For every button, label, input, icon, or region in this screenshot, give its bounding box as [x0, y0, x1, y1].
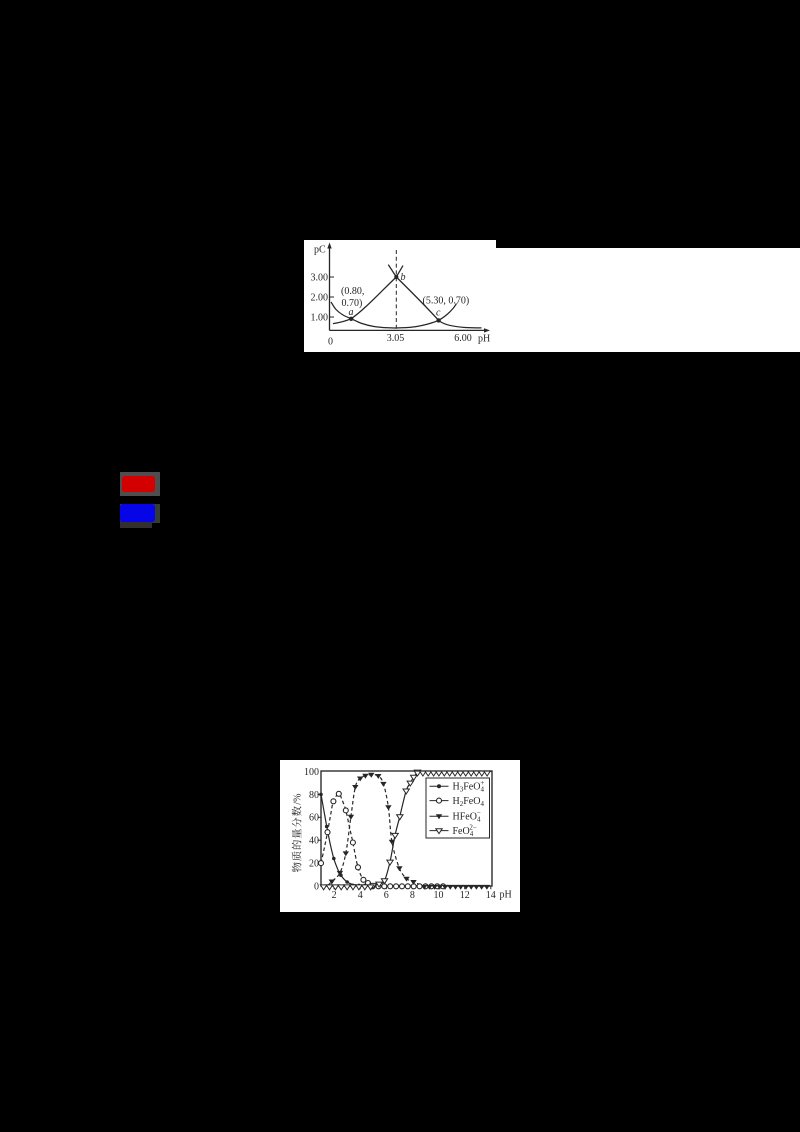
point b	[394, 275, 398, 279]
markers FeO4 2- open triangles	[370, 883, 376, 888]
curve falling b to c	[388, 265, 481, 328]
svg-text:0: 0	[328, 337, 333, 348]
legend row ocirc	[430, 800, 449, 802]
blue analysis stamp	[120, 504, 160, 523]
svg-text:8: 8	[410, 890, 415, 901]
svg-text:pH: pH	[478, 334, 490, 345]
figure 1 white band	[304, 240, 496, 352]
svg-text:(5.30, 0.70): (5.30, 0.70)	[423, 296, 470, 307]
svg-text:/%: /%	[293, 794, 304, 805]
svg-text:b: b	[401, 272, 406, 283]
x axis pH	[330, 329, 488, 331]
plot frame	[321, 771, 492, 886]
svg-text:(0.80,: (0.80,	[341, 286, 364, 297]
markers HFeO4- filled triangles	[329, 880, 335, 885]
svg-text:H2FeO4: H2FeO4	[453, 796, 485, 808]
y ticks	[330, 276, 335, 278]
svg-text:14: 14	[486, 890, 496, 901]
markers H3FeO4+	[319, 793, 323, 797]
svg-text:6: 6	[384, 890, 389, 901]
curve HFeO4- dashed	[328, 775, 425, 886]
dashed guide at pH 3.05	[395, 250, 397, 330]
svg-text:4: 4	[358, 890, 363, 901]
svg-text:60: 60	[309, 813, 319, 824]
y axis pC	[329, 245, 331, 330]
y axis title (rotated CJK)	[292, 794, 304, 873]
svg-text:6.00: 6.00	[454, 333, 472, 344]
figure 1: pC vs pH diagram	[304, 240, 504, 352]
legend row dot	[430, 785, 449, 787]
legend row otri	[430, 830, 449, 832]
svg-text:20: 20	[309, 859, 319, 870]
point c	[436, 318, 440, 322]
markers H2FeO4 open circles	[319, 861, 324, 866]
curve U (H2A)	[331, 302, 457, 328]
svg-text:2.00: 2.00	[311, 293, 329, 304]
svg-text:3.00: 3.00	[311, 273, 329, 284]
svg-text:100: 100	[304, 767, 319, 778]
curve H3FeO4+ solid	[321, 794, 368, 885]
figure 2: distribution diagram	[280, 760, 520, 912]
legend box	[426, 778, 490, 838]
svg-text:H3FeO4+: H3FeO4+	[453, 779, 485, 793]
svg-text:0: 0	[314, 881, 319, 892]
red answer stamp	[120, 472, 160, 496]
svg-text:3.05: 3.05	[387, 333, 405, 344]
y ticks	[318, 862, 322, 864]
svg-text:1.00: 1.00	[311, 313, 329, 324]
x ticks	[333, 886, 335, 889]
svg-text:HFeO4−: HFeO4−	[453, 809, 481, 823]
svg-text:80: 80	[309, 790, 319, 801]
curve rising a to b	[333, 266, 403, 324]
svg-text:pH: pH	[500, 890, 512, 901]
svg-text:10: 10	[434, 890, 444, 901]
svg-text:12: 12	[460, 890, 470, 901]
svg-text:pC: pC	[314, 245, 326, 256]
legend row ftri	[430, 815, 449, 817]
point a	[349, 317, 353, 321]
svg-text:a: a	[349, 307, 354, 318]
svg-text:2: 2	[332, 890, 337, 901]
figure 2 panel	[280, 760, 520, 912]
curve FeO4 2- solid	[373, 772, 417, 885]
svg-text:c: c	[436, 308, 441, 319]
svg-text:40: 40	[309, 836, 319, 847]
curve H2FeO4 dashed	[321, 794, 379, 886]
